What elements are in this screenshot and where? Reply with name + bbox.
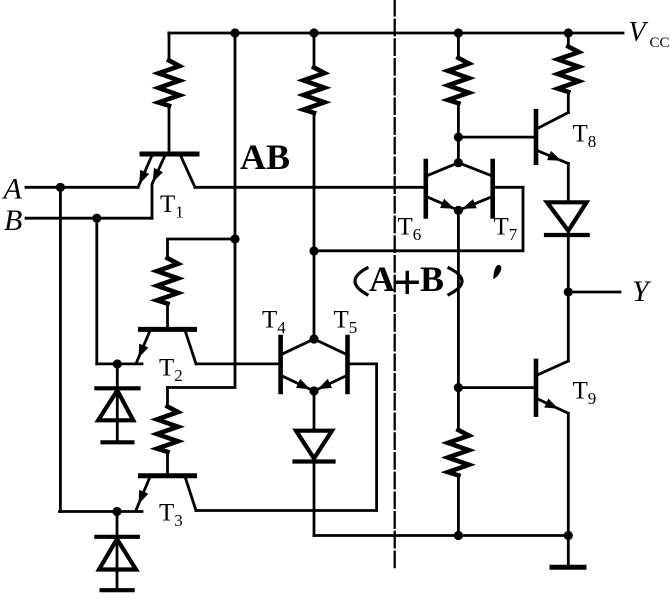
- wire T4/T5 emitter node down to D3: [313, 391, 316, 431]
- wire T3 emitter line: [60, 510, 143, 513]
- wire T7 base stub: [495, 186, 523, 189]
- transistor T9: [536, 361, 568, 415]
- wire input A: [26, 186, 138, 189]
- wire A column down to T3 emitter: [59, 187, 62, 511]
- svg-text:CC: CC: [650, 35, 670, 51]
- svg-text:Y: Y: [632, 275, 652, 308]
- transistor T3: [137, 476, 197, 511]
- svg-text:T3: T3: [159, 500, 183, 531]
- svg-text:T2: T2: [159, 355, 183, 386]
- node junction D2 top: [112, 507, 121, 516]
- resistor R7: [448, 430, 469, 536]
- wire T8 base: [458, 136, 533, 139]
- wire AB line from T1 collector to T6 base: [195, 186, 423, 189]
- node junction on B line: [92, 214, 101, 223]
- diode D2 input clamp: [96, 512, 137, 591]
- resistor R2: [157, 258, 178, 327]
- svg-text:T9: T9: [573, 378, 597, 409]
- node junction T4/T5 emitter node: [309, 386, 318, 395]
- wire bottom rail: [314, 534, 568, 537]
- resistor R3: [157, 388, 178, 474]
- svg-text:V: V: [629, 17, 649, 48]
- svg-text:T7: T7: [494, 214, 518, 245]
- node junction on A line: [56, 183, 65, 192]
- wire (A+B)' from T7 base loop: [314, 187, 523, 251]
- wire R2 feed branch: [168, 239, 236, 258]
- transistor T1 multi-emitter: [138, 154, 197, 218]
- wire T6/T7 emitter node down through R7 tap: [457, 210, 460, 430]
- transistor T7: [458, 161, 492, 216]
- svg-text:AB: AB: [240, 137, 290, 177]
- wire D5 to Y node: [567, 235, 570, 292]
- node junction T9 emitter rail: [564, 531, 573, 540]
- resistor R5: [448, 33, 469, 163]
- svg-text:A: A: [2, 172, 23, 205]
- svg-text:T5: T5: [334, 307, 358, 338]
- wire column x314 down to T4/T5 collector node: [313, 113, 316, 339]
- diode D1 input clamp: [96, 364, 138, 442]
- transistor T2: [137, 329, 197, 364]
- label (A+B)': [355, 254, 501, 310]
- node junction R2 branch: [230, 234, 239, 243]
- node junction top rail x458: [454, 28, 463, 37]
- node junction T6/T7 collector node: [454, 158, 463, 167]
- wire T2 collector to T4 base: [196, 362, 278, 365]
- svg-text:+: +: [393, 254, 422, 310]
- node junction T8 base tap: [454, 133, 463, 142]
- svg-text:T6: T6: [398, 214, 422, 245]
- node junction T6/T7 emitter node: [454, 206, 463, 215]
- label Vcc: [629, 17, 670, 51]
- svg-text:T8: T8: [573, 121, 597, 152]
- wire T9 base: [458, 386, 533, 389]
- svg-text:B: B: [4, 204, 22, 237]
- node junction x314 on (A+B)' wire: [309, 246, 318, 255]
- svg-text:T1: T1: [160, 191, 184, 222]
- resistor R6: [558, 33, 579, 113]
- wire T3 collector to T5 base loop: [196, 364, 377, 511]
- svg-text:A: A: [369, 259, 395, 299]
- node junction D1 top: [113, 359, 122, 368]
- diode D5: [546, 202, 588, 235]
- transistor T6: [426, 161, 459, 216]
- node junction T4/T5 collector node: [309, 334, 318, 343]
- wire center-left column from rail down to R3 feed: [168, 33, 236, 388]
- node junction R7 bottom rail: [454, 531, 463, 540]
- transistor T8: [536, 111, 568, 163]
- ground: [552, 536, 584, 568]
- node junction Y output: [564, 287, 573, 296]
- diode D3: [295, 431, 334, 462]
- wire B column down to T2 emitter: [95, 218, 98, 364]
- wire input B: [26, 217, 152, 220]
- transistor T5: [314, 337, 348, 392]
- wire Vcc top rail: [169, 32, 623, 35]
- resistor R4: [304, 33, 325, 113]
- node junction T9 base tap: [454, 383, 463, 392]
- node junction top rail x235: [230, 28, 239, 37]
- wire D3 to bottom rail: [313, 462, 316, 536]
- wire Y output: [568, 291, 620, 294]
- wire T8 emitter down to D5: [567, 164, 570, 203]
- transistor T4: [281, 337, 314, 392]
- wire T2 emitter line: [97, 362, 142, 365]
- wire T9 emitter down to rail: [567, 413, 570, 535]
- resistor R1: [159, 33, 180, 152]
- svg-text:T4: T4: [262, 307, 286, 338]
- dashed divider line: [394, 0, 396, 570]
- node junction top rail x568: [564, 28, 573, 37]
- wire Y node down to T9 collector: [567, 292, 570, 361]
- svg-text:B: B: [420, 259, 444, 299]
- node junction top rail x314: [309, 28, 318, 37]
